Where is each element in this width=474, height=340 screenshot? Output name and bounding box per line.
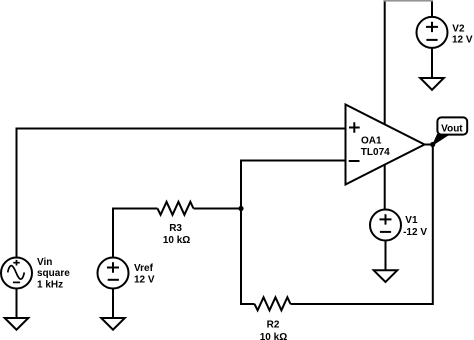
wire op-amp V+ supply up to top edge [384,0,386,124]
ground below Vref [101,318,125,330]
svg-text:12 V: 12 V [452,35,473,46]
voltage source Vin [1,258,32,289]
svg-text:10 kΩ: 10 kΩ [260,332,287,340]
Vout flag pointer [433,134,450,145]
wire node A down to R2 [241,209,255,305]
voltage source Vref [98,258,129,289]
svg-text:-12 V: -12 V [403,227,427,238]
svg-text:square: square [37,268,70,279]
svg-text:12 V: 12 V [134,275,155,286]
node A junction dot [238,206,243,211]
wire R2 to output node [291,145,433,305]
Vout flag [437,117,467,134]
svg-text:R2: R2 [267,320,280,331]
op-amp OA1 [346,105,425,185]
wire Vin to ground [16,289,18,319]
svg-text:TL074: TL074 [361,147,390,158]
wire op-amp V- supply to V1 [384,165,386,210]
output node dot [430,142,435,147]
wire op-amp output stub [425,144,433,146]
wire V2 to ground [431,48,433,78]
wire top horizontal (clipped at canvas top) [384,0,433,2]
svg-text:V1: V1 [405,215,418,226]
svg-text:10 kΩ: 10 kΩ [163,235,190,246]
resistor R2 [255,297,291,310]
svg-text:R3: R3 [169,223,182,234]
wire V2 top lead [431,0,433,17]
wire V1 to ground [385,241,387,271]
voltage source V1 [370,210,401,241]
voltage source V2 [417,17,448,48]
svg-text:V2: V2 [452,24,465,35]
wire R3 to node A [194,208,242,210]
svg-text:1 kHz: 1 kHz [37,279,63,290]
svg-text:Vin: Vin [37,257,52,268]
ground below V1 [374,270,398,282]
ground below Vin [5,318,29,330]
wire node A to op-amp inverting input [241,161,346,209]
wire Vin to op-amp non-inverting input [17,129,346,259]
svg-text:OA1: OA1 [361,136,382,147]
svg-text:Vref: Vref [134,263,154,274]
resistor R3 [158,202,194,215]
wire Vref to R3 [113,209,158,259]
wire Vref to ground [112,289,114,319]
svg-text:Vout: Vout [441,123,463,134]
ground below V2 [420,78,444,90]
